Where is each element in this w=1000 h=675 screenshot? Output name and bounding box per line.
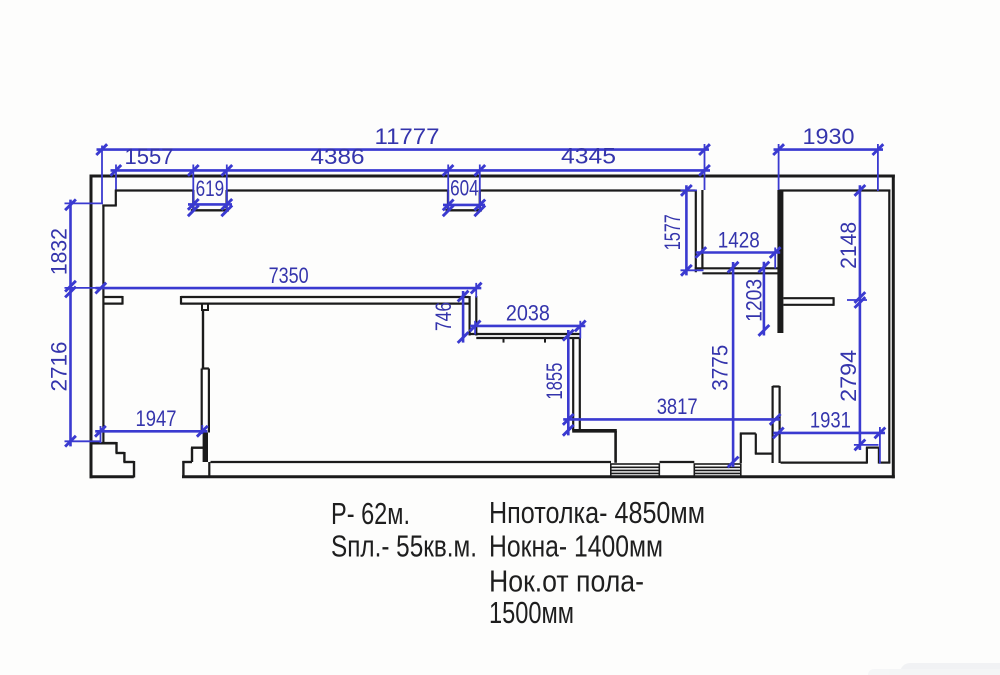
wall: bottom outer left part — [90, 475, 134, 478]
wall: top outer — [90, 175, 895, 178]
ext line niche1 right — [226, 165, 228, 213]
svg-text:619: 619 — [196, 176, 225, 201]
ticks 619 — [188, 199, 232, 216]
ext line 2716 bottom — [65, 440, 101, 442]
wall H (1428 wall) — [695, 268, 778, 273]
svg-text:Sпл.- 55кв.м.: Sпл.- 55кв.м. — [331, 529, 477, 564]
dim line 1832-2716 — [69, 200, 72, 447]
ext line 1832 bottom / 7350 — [65, 287, 97, 289]
dim line 1428 — [696, 251, 781, 254]
svg-text:Нпотолка- 4850мм: Нпотолка- 4850мм — [489, 495, 705, 530]
dim line 746 — [462, 291, 465, 343]
ticks 746 — [458, 291, 469, 343]
ext line top-left — [101, 146, 103, 205]
ext line 2038 right — [579, 321, 581, 339]
dim line 1947 — [95, 430, 207, 433]
ext line step 1557 — [115, 165, 117, 190]
interior bottom line a — [211, 461, 612, 463]
ticks 3817 — [563, 414, 781, 425]
ext line 1947 left — [100, 426, 102, 443]
svg-text:1500мм: 1500мм — [489, 595, 574, 630]
svg-text:4386: 4386 — [311, 144, 365, 169]
svg-text:2038: 2038 — [506, 300, 550, 325]
window hatch 2 on bottom wall — [694, 464, 741, 476]
ext line 1930 left — [778, 144, 780, 190]
ext line 7350 right — [475, 283, 477, 298]
pier below interior line — [208, 462, 210, 477]
dim line 1855 — [567, 330, 570, 435]
ext line 2794 bottom — [854, 444, 879, 446]
niche window 619 — [191, 190, 229, 210]
ext line 1577 top — [681, 189, 698, 191]
dim line 1203 — [763, 262, 766, 336]
svg-text:1832: 1832 — [47, 228, 72, 275]
ticks 604 — [443, 200, 485, 217]
ext line 2148 middle — [847, 299, 867, 301]
dim line 1577 — [685, 185, 688, 275]
entrance bay steps right — [182, 448, 204, 478]
wall F (3817 wall) — [572, 429, 617, 433]
svg-text:7350: 7350 — [269, 263, 309, 288]
dim line 619 — [188, 203, 232, 206]
ext line 1947 right — [201, 425, 203, 434]
svg-text:2716: 2716 — [47, 342, 72, 392]
ticks 11777 — [96, 144, 710, 155]
ext line 2038 left — [474, 321, 476, 335]
entrance right reveal bar — [203, 433, 208, 463]
dim line 3817 — [563, 418, 780, 421]
pier K (door pier to right room) — [773, 386, 780, 463]
ext line 1832 top — [65, 202, 104, 204]
wall: top inner segment c — [480, 189, 696, 191]
dim line 7350 — [96, 287, 482, 290]
svg-text:Нок.от пола-: Нок.от пола- — [489, 564, 644, 599]
svg-text:1947: 1947 — [136, 406, 177, 431]
svg-text:1930: 1930 — [803, 124, 855, 149]
svg-text:11777: 11777 — [375, 124, 440, 149]
ticks 1947 — [95, 426, 208, 437]
ext line 1931 right — [879, 427, 881, 464]
right room bottom interior — [781, 462, 867, 464]
svg-text:1577: 1577 — [660, 214, 685, 250]
ticks 7350 — [95, 283, 481, 294]
wall I (1203 wall, filled) — [777, 190, 783, 333]
interior bottom line b (between windows) — [660, 461, 695, 463]
wall G (1577 wall) — [696, 190, 703, 272]
ticks tier2 — [110, 165, 710, 176]
ticks 3775 — [728, 262, 739, 468]
ext line 1428 right — [774, 248, 776, 269]
svg-text:1428: 1428 — [718, 227, 760, 252]
wall F vertical — [614, 431, 617, 463]
ext line niche2 right — [479, 165, 481, 213]
svg-text:746: 746 — [431, 302, 456, 331]
dim line 2038 — [470, 325, 585, 328]
svg-text:1557: 1557 — [125, 144, 174, 169]
wall: top-left step vertical — [115, 190, 117, 206]
wall D (2038 wall) — [470, 334, 581, 343]
dim line 3775 — [732, 262, 735, 467]
faint gray smudge bottom-right — [868, 663, 1000, 675]
bottom-right notch — [866, 448, 879, 464]
window hatch 1 on bottom wall — [611, 464, 660, 476]
wall E (1855 wall) — [573, 338, 580, 431]
ext line 1930 right — [877, 144, 879, 191]
wall: top inner segment a — [116, 189, 194, 191]
ext line 11777 right — [704, 144, 706, 190]
ticks 1428 — [695, 247, 780, 258]
wall: top inner segment b — [227, 189, 448, 191]
ticks 2038 — [470, 321, 586, 332]
svg-text:1855: 1855 — [542, 363, 567, 400]
wall C (746 step wall) — [470, 296, 477, 336]
ticks 1832-2716 — [65, 199, 76, 446]
dim line 11777 — [97, 148, 710, 151]
step near door to right room — [740, 434, 772, 464]
ext line niche1 left — [192, 165, 194, 213]
wall: left outer — [90, 175, 93, 479]
wall: right outer — [892, 175, 895, 479]
svg-text:1931: 1931 — [810, 408, 851, 433]
dim line 1557-4386-604-4345 tier — [111, 169, 711, 172]
ticks 2148-2794 — [855, 185, 866, 450]
ticks 1930 — [773, 144, 883, 155]
dim line 1930 — [774, 148, 884, 151]
ext line 1577 bottom — [681, 269, 704, 271]
svg-text:2794: 2794 — [836, 350, 861, 402]
svg-text:3817: 3817 — [657, 394, 698, 419]
svg-text:Нокна- 1400мм: Нокна- 1400мм — [489, 529, 663, 564]
dim line 1931 — [773, 432, 885, 435]
ticks 1577 — [681, 185, 692, 276]
svg-text:4345: 4345 — [561, 144, 616, 169]
dim line 604 — [443, 204, 485, 207]
wall B thin (hall/room divider) — [202, 310, 204, 369]
niche window 604 — [446, 190, 483, 210]
svg-text:3775: 3775 — [708, 345, 733, 391]
ticks 1931 — [773, 428, 885, 439]
ticks 1855 — [563, 330, 574, 436]
wall B2 double (hall/room divider lower) — [202, 369, 209, 433]
wall: top-left step horizontal — [102, 204, 116, 206]
wall: bottom outer right part — [182, 475, 895, 478]
dim line 2148-2794 — [859, 185, 862, 450]
svg-text:1203: 1203 — [742, 279, 767, 322]
entrance bay floor left — [92, 442, 117, 445]
ext line niche2 left — [447, 165, 449, 213]
interior wall A (7350 wall) — [103, 296, 468, 305]
wall: top inner segment d — [778, 189, 890, 191]
svg-text:Р- 62м.: Р- 62м. — [331, 496, 410, 531]
wall: right inner — [888, 190, 890, 464]
wall: left inner — [102, 205, 104, 444]
door frame stub on wall A — [201, 304, 209, 310]
right room bottom interior 2 — [879, 462, 890, 464]
entrance bay steps left — [116, 442, 135, 478]
svg-text:604: 604 — [450, 176, 479, 201]
svg-text:2148: 2148 — [836, 222, 861, 269]
ticks 1203 — [759, 262, 770, 336]
T-stub wall in right room — [783, 297, 833, 306]
